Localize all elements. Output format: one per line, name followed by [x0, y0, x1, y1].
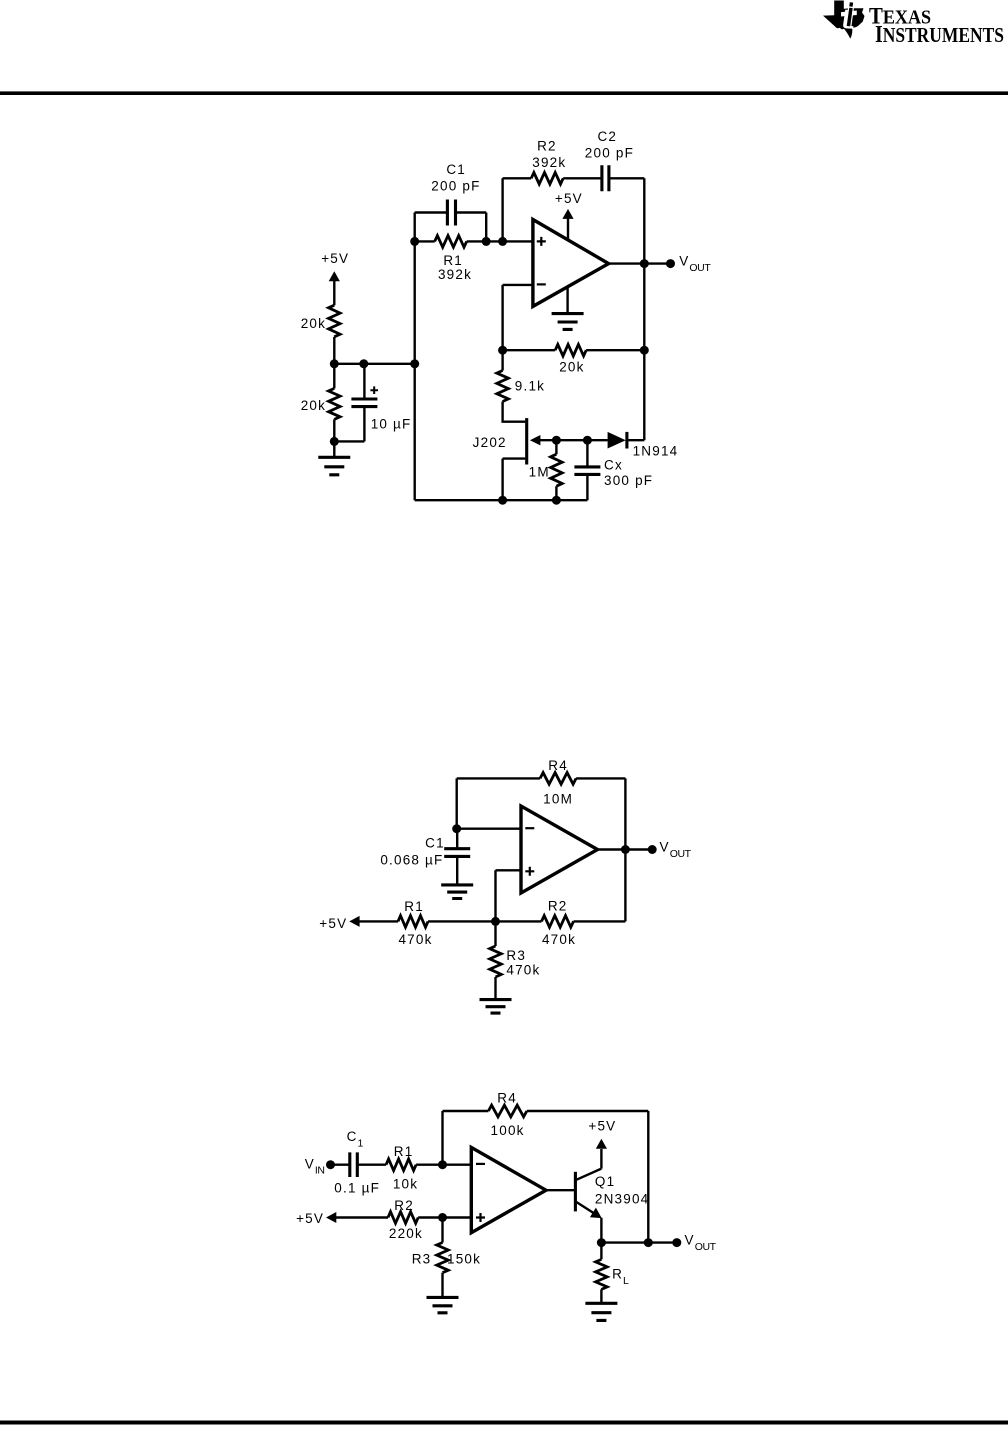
svg-text:INSTRUMENTS: INSTRUMENTS: [875, 20, 1004, 47]
node VOUT junction: [640, 259, 649, 268]
svg-text:0.1 µF: 0.1 µF: [334, 1181, 380, 1196]
op-amp U2 minus mark: [525, 827, 534, 829]
resistor R1 c3: [386, 1159, 416, 1171]
svg-text:+5V: +5V: [555, 191, 583, 206]
wire 20k feedback row: [503, 349, 645, 351]
svg-text:470k: 470k: [398, 932, 432, 947]
svg-text:C1: C1: [446, 162, 466, 177]
svg-text:+5V: +5V: [319, 916, 347, 931]
resistor 20k upper divider: [329, 305, 341, 337]
svg-text:Q1: Q1: [595, 1174, 615, 1189]
resistor 20k lower divider: [329, 388, 341, 419]
resistor 20k feedback: [555, 344, 586, 356]
svg-text:200 pF: 200 pF: [585, 146, 634, 161]
wire +5V rail c2: [428, 920, 625, 922]
wire op-amp output: [609, 262, 671, 264]
resistor RL: [596, 1259, 608, 1289]
Texas Instruments logo mark (state of Texas with ti): [823, 1, 865, 39]
wire R4 feedback row c2: [457, 778, 626, 921]
wire C1 feedback loop top: [415, 213, 487, 242]
svg-text:R1: R1: [404, 899, 424, 914]
svg-text:+5V: +5V: [321, 251, 349, 266]
node non-inverting junction c3: [438, 1213, 447, 1222]
resistor R3 c3: [437, 1243, 449, 1273]
transistor Q1 base bar: [574, 1172, 577, 1212]
power +5V arrow c3: [326, 1212, 336, 1223]
op-amp U1 plus input mark: [537, 237, 546, 246]
op-amp U3: [471, 1147, 546, 1232]
op-amp U1 minus input mark: [537, 283, 546, 285]
power +5V arrow c2: [349, 916, 359, 927]
capacitor C1 c3 plates: [350, 1152, 358, 1177]
wire inverting input c2: [457, 828, 521, 830]
svg-text:392k: 392k: [438, 267, 472, 282]
op-amp U2 plus mark: [525, 867, 534, 876]
transistor Q1 emitter: [575, 1201, 601, 1242]
wire VIN to C1 c3: [331, 1163, 350, 1165]
svg-text:10M: 10M: [543, 792, 573, 807]
svg-text:392k: 392k: [532, 155, 566, 170]
node divider mid: [330, 359, 339, 368]
node divider junction c2: [491, 917, 500, 926]
resistor 9.1k: [497, 371, 509, 402]
capacitor 10uF polarity plus: [370, 386, 378, 394]
transistor J202 JFET: [503, 402, 526, 501]
op-amp U1: [533, 220, 609, 307]
op-amp U3 plus mark: [476, 1213, 485, 1222]
capacitor Cx: [586, 440, 588, 500]
svg-text:+5V: +5V: [296, 1211, 324, 1226]
node mid rail right: [410, 359, 419, 368]
resistor R2: [531, 173, 563, 185]
svg-text:20k: 20k: [559, 360, 584, 375]
svg-text:20k: 20k: [301, 398, 326, 413]
svg-text:470k: 470k: [506, 962, 540, 977]
svg-text:200 pF: 200 pF: [431, 179, 480, 194]
wire C1 to R1 c3: [357, 1163, 386, 1165]
resistor R2 c3: [388, 1212, 418, 1224]
ground divider: [318, 457, 350, 475]
wire output c2: [598, 848, 653, 850]
bottom horizontal rule: [0, 1421, 1008, 1425]
svg-text:20k: 20k: [301, 316, 326, 331]
node 20k left: [498, 346, 507, 355]
power +5V arrow op-amp: [562, 209, 573, 219]
ground RL: [585, 1303, 617, 1320]
node VOUT terminal c3: [672, 1238, 681, 1247]
node gate 1M junction: [552, 436, 561, 445]
node output junction c3: [644, 1238, 653, 1247]
svg-text:100k: 100k: [491, 1123, 525, 1138]
wire mid rail: [334, 363, 414, 365]
svg-text:R1: R1: [394, 1144, 414, 1159]
node divider bottom: [330, 437, 339, 446]
wire R2 C2 feedback row: [503, 178, 645, 440]
capacitor 10uF: [334, 364, 364, 442]
node output junction c2: [621, 845, 630, 854]
node VOUT terminal c2: [648, 845, 657, 854]
node 20k right: [640, 346, 649, 355]
node bottom 1M: [552, 496, 561, 505]
resistor R4 c2: [540, 773, 576, 785]
svg-text:+5V: +5V: [588, 1119, 616, 1134]
wire R4 feedback row c3: [443, 1111, 649, 1243]
svg-text:R4: R4: [497, 1090, 517, 1105]
svg-text:C2: C2: [597, 129, 617, 144]
node junction C1 right: [482, 237, 491, 246]
node inverting input c2: [452, 824, 461, 833]
node gate Cx junction: [583, 436, 592, 445]
diode 1N914: [608, 432, 626, 449]
resistor R1 c2: [398, 916, 428, 928]
wire inverting input: [503, 285, 533, 350]
op-amp U3 minus mark: [476, 1163, 485, 1165]
resistor R2 c2: [542, 916, 574, 928]
node emitter junction: [597, 1238, 606, 1247]
svg-text:10k: 10k: [393, 1177, 418, 1192]
svg-text:J202: J202: [473, 435, 507, 450]
capacitor C1 plates: [447, 200, 455, 226]
wire divider to ground: [333, 441, 335, 457]
svg-text:R1: R1: [443, 253, 463, 268]
capacitor C1 c2: [456, 829, 458, 885]
svg-text:R2: R2: [548, 899, 568, 914]
ground op-amp U1: [566, 287, 568, 314]
wire R1 to op-amp c3: [416, 1163, 471, 1165]
wire emitter rail c3: [601, 1241, 676, 1243]
wire bottom rail: [415, 499, 588, 501]
svg-text:2N3904: 2N3904: [595, 1191, 650, 1206]
svg-text:1M: 1M: [529, 465, 550, 480]
svg-text:R3: R3: [412, 1252, 432, 1267]
node junction R2 branch: [498, 237, 507, 246]
node cap tap: [359, 359, 368, 368]
wire left vertical bus: [414, 213, 416, 501]
svg-text:1N914: 1N914: [633, 443, 679, 458]
ground R3 c2: [480, 1000, 512, 1014]
resistor R1: [435, 236, 467, 248]
wire non-inverting input row: [415, 240, 533, 242]
svg-text:150k: 150k: [447, 1252, 481, 1267]
svg-text:470k: 470k: [542, 932, 576, 947]
transistor J202 gate arrow: [530, 435, 541, 445]
svg-text:R2: R2: [394, 1198, 414, 1213]
resistor 1M: [551, 454, 563, 486]
svg-text:R3: R3: [506, 948, 526, 963]
resistor R4 c3: [488, 1105, 526, 1117]
svg-text:220k: 220k: [389, 1226, 423, 1241]
resistor R3 c2: [490, 946, 502, 977]
svg-text:300 pF: 300 pF: [604, 473, 653, 488]
node VIN terminal: [326, 1160, 335, 1169]
transistor Q1 collector: [575, 1149, 601, 1180]
svg-text:0.068 µF: 0.068 µF: [380, 852, 443, 867]
svg-text:C1: C1: [425, 835, 445, 850]
svg-text:R2: R2: [537, 139, 557, 154]
svg-text:R4: R4: [548, 758, 568, 773]
wire base c3: [546, 1189, 574, 1191]
wire gate row: [537, 439, 608, 441]
ground C1 c2: [441, 885, 473, 899]
svg-text:Cx: Cx: [604, 458, 623, 473]
op-amp U2: [521, 806, 598, 893]
wire non-inverting input c2: [496, 870, 522, 921]
node inverting junction c3: [438, 1160, 447, 1169]
power +5V arrow Q1: [596, 1139, 607, 1149]
node junction R1 left: [410, 237, 419, 246]
power +5V arrow divider: [329, 271, 340, 281]
wire R2 to op-amp c3: [418, 1216, 471, 1218]
top horizontal rule: [0, 91, 1008, 95]
svg-text:9.1k: 9.1k: [515, 379, 545, 394]
node bottom source: [498, 496, 507, 505]
node VOUT terminal: [666, 259, 675, 268]
ground R3 c3: [427, 1297, 459, 1312]
capacitor C2 plates: [602, 165, 609, 191]
svg-text:10 µF: 10 µF: [371, 417, 412, 432]
